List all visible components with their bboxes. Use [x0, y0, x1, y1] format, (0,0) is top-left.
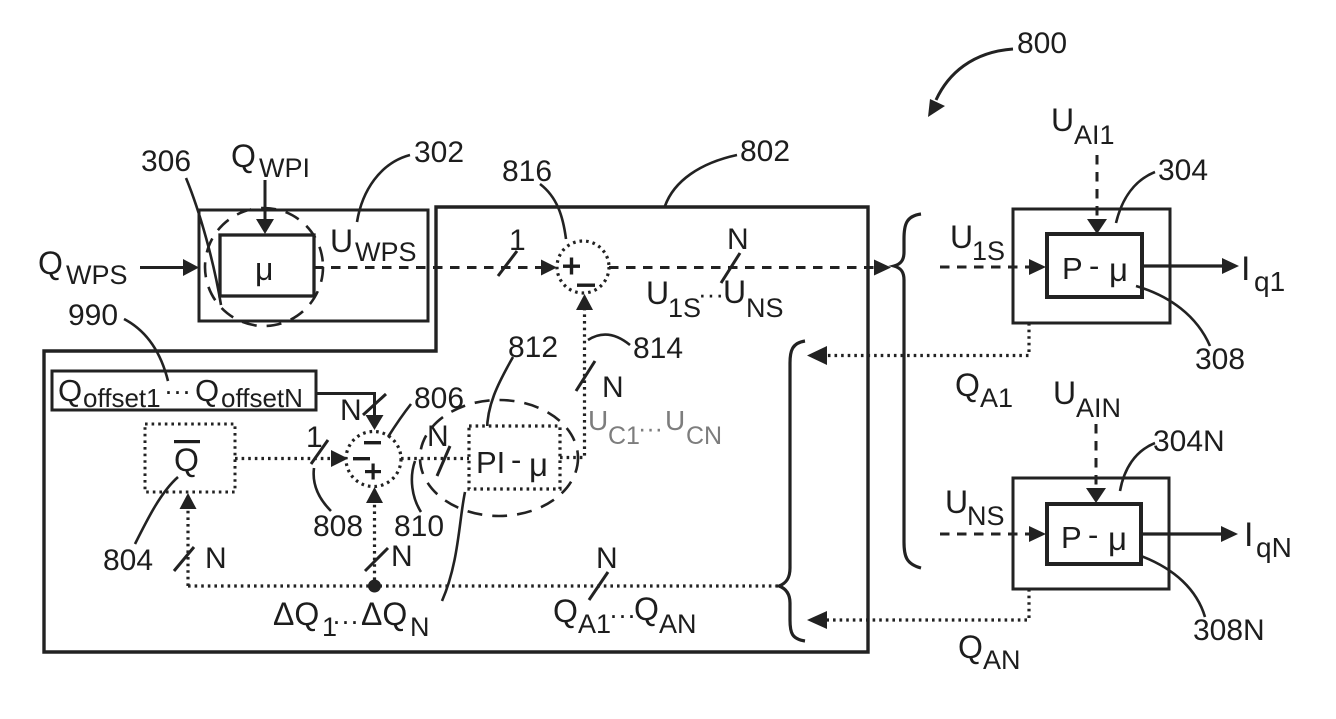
mu block inside 302 — [220, 235, 314, 296]
svg-text:U: U — [646, 275, 669, 311]
svg-text:N: N — [205, 542, 227, 575]
svg-text:μ: μ — [1108, 520, 1127, 557]
label U_C1...U_CN gray — [588, 405, 722, 450]
wire from Qoffset box to summing 806 — [316, 394, 384, 431]
svg-text:Q: Q — [174, 442, 199, 478]
svg-text:808: 808 — [313, 510, 363, 543]
svg-text:990: 990 — [68, 299, 118, 332]
slash N on 806-PI wire — [437, 446, 450, 476]
block 302 — [199, 210, 428, 321]
svg-text:Q: Q — [955, 367, 980, 403]
svg-text:μ: μ — [1109, 251, 1128, 288]
svg-text:WPS: WPS — [66, 260, 128, 290]
svg-text:offsetN: offsetN — [221, 383, 303, 413]
label 814 with leader — [633, 332, 683, 365]
svg-text:N: N — [340, 394, 362, 427]
svg-text:U: U — [723, 274, 746, 310]
label 804 with leader — [103, 544, 153, 577]
block 990 Qoffset — [52, 371, 316, 410]
svg-text:816: 816 — [502, 155, 552, 188]
svg-text:AIN: AIN — [1076, 393, 1121, 423]
svg-text:1S: 1S — [972, 236, 1005, 266]
svg-text:1S: 1S — [668, 293, 701, 323]
svg-text:P: P — [1061, 520, 1082, 555]
svg-text:P: P — [1062, 251, 1083, 286]
svg-text:Q: Q — [58, 373, 82, 408]
label U_AI1 — [1051, 102, 1115, 150]
block 802 outline (L-shaped union with lower box) — [44, 207, 868, 652]
svg-text:PI: PI — [476, 445, 505, 480]
wire Q_WPS arrow into 302 — [140, 259, 199, 276]
svg-text:812: 812 — [508, 331, 558, 364]
svg-text:U: U — [950, 219, 973, 255]
svg-text:1: 1 — [306, 421, 323, 454]
svg-text:1: 1 — [509, 224, 526, 257]
svg-text:U: U — [945, 484, 968, 520]
wire dotted Qbar to 806 — [235, 450, 348, 467]
right brace collecting outputs — [894, 214, 921, 568]
svg-text:N: N — [391, 540, 413, 573]
svg-text:I: I — [1244, 516, 1253, 554]
wire dotted PI up to 816 — [560, 294, 593, 458]
svg-text:U: U — [588, 405, 608, 436]
P-mu block inside 304 — [1047, 234, 1142, 297]
label U_1S — [950, 219, 1005, 266]
svg-text:q1: q1 — [1254, 266, 1285, 297]
block 804 Qbar (dotted) — [145, 424, 235, 492]
wire dashed U_NS into block 304N — [940, 526, 1046, 542]
svg-text:-: - — [511, 442, 521, 477]
dashed circle 306 — [205, 208, 323, 326]
svg-text:308N: 308N — [1193, 614, 1265, 647]
label 304N with leader — [1153, 425, 1225, 458]
svg-text:N: N — [427, 420, 449, 453]
label U_NS — [945, 484, 1005, 531]
slash N on 806 riser — [365, 548, 388, 571]
label 308 with leader — [1195, 343, 1245, 376]
svg-text:N: N — [727, 223, 749, 256]
label 308N with leader — [1193, 614, 1265, 647]
label U_WPS — [330, 223, 417, 267]
label U_1S...U_NS — [646, 274, 784, 323]
label 816 with leader — [502, 155, 552, 188]
svg-text:302: 302 — [414, 136, 464, 169]
slash N on riser — [174, 547, 194, 571]
svg-text:U: U — [1053, 375, 1076, 411]
block 304 — [1013, 209, 1170, 323]
svg-text:-: - — [1089, 248, 1099, 283]
label 808 with leader — [313, 510, 363, 543]
svg-text:CN: CN — [686, 422, 722, 450]
summing junction 816 — [557, 241, 609, 293]
svg-text:308: 308 — [1195, 343, 1245, 376]
svg-text:N: N — [596, 542, 618, 575]
svg-text:AI1: AI1 — [1074, 120, 1115, 150]
svg-text:Q: Q — [231, 138, 256, 174]
svg-text:U: U — [665, 405, 685, 436]
label U_AIN — [1053, 375, 1121, 423]
wire dotted 806 to PI — [401, 457, 469, 460]
label QAN — [958, 629, 1021, 675]
label 306 with leader — [141, 145, 191, 178]
svg-text:···: ··· — [638, 415, 663, 443]
label Iq1 — [1241, 250, 1285, 297]
wire IqN output — [1141, 526, 1238, 542]
wire dashed from mu to summing 816 — [314, 260, 557, 276]
svg-text:μ: μ — [255, 251, 273, 287]
label Q_WPS — [38, 245, 128, 290]
svg-text:WPS: WPS — [355, 237, 417, 267]
left brace collecting feedback — [779, 341, 805, 641]
wire dashed from 816 out right of 802 — [609, 260, 891, 276]
svg-text:NS: NS — [746, 293, 784, 323]
label QA1 — [955, 367, 1013, 413]
svg-text:WPI: WPI — [259, 153, 310, 183]
svg-text:qN: qN — [1256, 532, 1292, 563]
svg-text:306: 306 — [141, 145, 191, 178]
svg-text:Q: Q — [958, 629, 983, 665]
wire dotted feedback QA1 — [807, 323, 1029, 365]
svg-text:814: 814 — [633, 332, 683, 365]
svg-text:AN: AN — [659, 609, 697, 639]
svg-text:804: 804 — [103, 544, 153, 577]
label Q_WPI — [231, 138, 310, 183]
slash N on bus — [589, 572, 608, 600]
wire dashed U_AI1 down into 304 — [1087, 155, 1107, 234]
label 990 with leader — [68, 299, 118, 332]
label Q_A1...Q_AN on bus — [553, 591, 697, 639]
label 806 with leader — [414, 382, 464, 415]
svg-text:Q: Q — [553, 593, 578, 629]
label dQ1...dQN — [273, 596, 430, 642]
svg-text:A1: A1 — [578, 609, 611, 639]
wire Iq1 output — [1142, 258, 1239, 274]
svg-text:802: 802 — [740, 135, 790, 168]
svg-text:Q: Q — [38, 245, 63, 281]
svg-text:ΔQ: ΔQ — [361, 596, 407, 632]
label 802 with leader — [740, 135, 790, 168]
svg-text:C1: C1 — [608, 422, 640, 450]
svg-text:A1: A1 — [980, 383, 1013, 413]
svg-text:304N: 304N — [1153, 425, 1225, 458]
svg-text:N: N — [410, 612, 430, 642]
label 812 with long leader — [508, 331, 558, 364]
slash 1 on wire — [498, 251, 517, 276]
svg-text:AN: AN — [983, 645, 1021, 675]
label IqN — [1244, 516, 1292, 563]
label 302 with leader — [414, 136, 464, 169]
svg-text:···: ··· — [332, 606, 359, 636]
slash N on vertical wire — [576, 361, 595, 391]
svg-text:···: ··· — [609, 600, 636, 630]
block 304N — [1013, 478, 1169, 589]
svg-text:offset1: offset1 — [83, 383, 161, 413]
svg-text:N: N — [602, 371, 624, 404]
svg-text:ΔQ: ΔQ — [273, 596, 319, 632]
svg-text:800: 800 — [1017, 27, 1067, 60]
svg-text:-: - — [1088, 517, 1098, 552]
dashed circle 812 — [420, 400, 578, 516]
feedback bus dotted with junction — [188, 580, 779, 593]
svg-text:U: U — [330, 223, 353, 259]
wire dotted riser bus to Qbar — [180, 493, 197, 586]
summing junction 806 — [346, 432, 401, 487]
label 304 with leader — [1158, 154, 1208, 187]
P-mu block inside 304N — [1047, 504, 1141, 564]
slash 1 on Qbar wire — [311, 440, 328, 464]
label 810 with leader — [394, 510, 444, 543]
svg-text:NS: NS — [967, 501, 1005, 531]
svg-text:I: I — [1241, 250, 1250, 288]
wire dashed U_AIN down into 304N — [1086, 424, 1106, 503]
svg-text:Q: Q — [634, 591, 659, 627]
wire Q_WPI arrow down into mu block — [256, 180, 274, 234]
svg-text:Q: Q — [195, 373, 219, 408]
svg-text:810: 810 — [394, 510, 444, 543]
svg-text:···: ··· — [698, 279, 724, 309]
svg-text:304: 304 — [1158, 154, 1208, 187]
wire dotted feedback QAN — [807, 589, 1029, 629]
svg-text:U: U — [1051, 102, 1074, 138]
slash N on wire — [721, 253, 740, 283]
wire dashed U_1S into block 304 — [940, 259, 1046, 275]
wire dotted riser bus to 806 — [366, 487, 383, 580]
slash N on offset wire — [363, 394, 386, 415]
label 800 with arrow — [1017, 27, 1067, 60]
block PI-mu (dotted) — [469, 426, 560, 489]
svg-text:μ: μ — [529, 446, 548, 483]
